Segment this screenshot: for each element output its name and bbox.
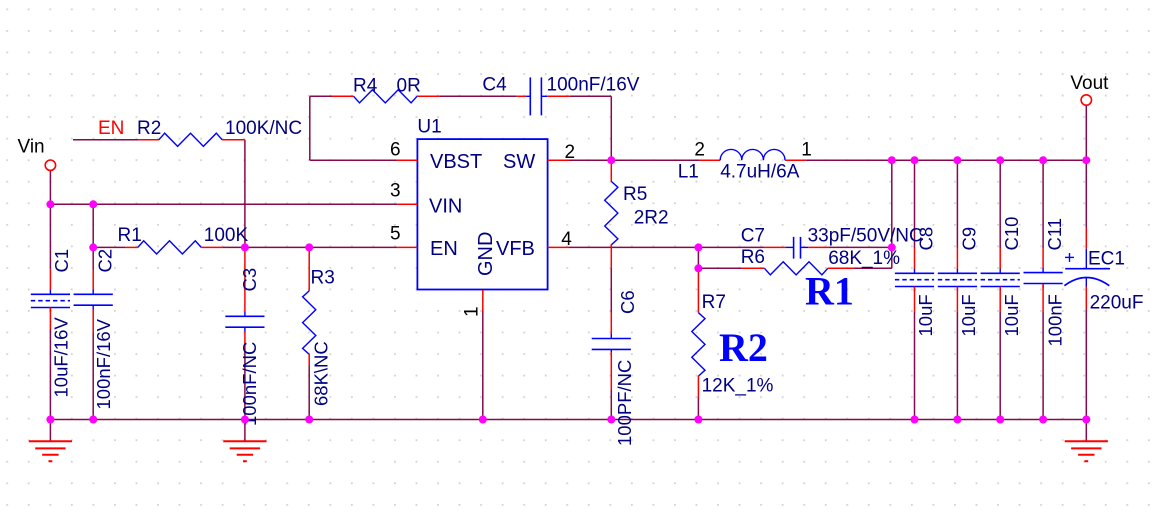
resistor R4 <box>332 76 439 103</box>
svg-text:EC1: EC1 <box>1088 249 1125 270</box>
svg-text:L1: L1 <box>678 162 699 183</box>
resistor R2 <box>137 118 302 146</box>
wire R6 left <box>698 267 741 269</box>
svg-text:6: 6 <box>390 140 401 161</box>
net label EN <box>98 118 124 139</box>
wire C10 bottom <box>999 311 1001 419</box>
junction dots feedback <box>694 243 895 272</box>
wire C8 bottom <box>914 311 916 419</box>
svg-text:12K_1%: 12K_1% <box>702 376 774 397</box>
svg-text:EN: EN <box>430 238 458 260</box>
U1 pin 5 EN <box>390 224 458 261</box>
svg-text:1: 1 <box>801 140 812 161</box>
wire C3 bottom <box>244 349 246 420</box>
resistor R1 <box>118 225 249 254</box>
resistor R5 <box>605 163 669 247</box>
U1 pin 4 VFB <box>496 229 572 260</box>
wire C6 bottom <box>610 390 612 420</box>
svg-text:GND: GND <box>475 232 497 276</box>
wire C10 top <box>999 160 1001 248</box>
capacitor C6 <box>592 247 638 446</box>
wire Vout drop <box>1085 105 1087 160</box>
capacitor C8 <box>895 227 937 337</box>
svg-text:10uF: 10uF <box>1001 294 1022 336</box>
wire C7 right <box>828 246 892 248</box>
wire EC1 bottom <box>1085 310 1087 420</box>
svg-text:VIN: VIN <box>429 196 462 218</box>
svg-text:R7: R7 <box>702 292 726 313</box>
wire VBST loop left <box>310 96 397 160</box>
svg-text:4.7uH/6A: 4.7uH/6A <box>720 162 800 183</box>
U1 pin 2 SW <box>503 142 575 173</box>
svg-text:68K_1%: 68K_1% <box>828 248 900 269</box>
ground right <box>1065 420 1108 462</box>
svg-text:0R: 0R <box>397 76 421 97</box>
svg-text:R3: R3 <box>311 268 335 289</box>
wire C11 bottom <box>1042 311 1044 419</box>
svg-text:EN: EN <box>98 118 124 139</box>
svg-text:Vout: Vout <box>1070 73 1109 94</box>
wire R7 bottom <box>697 398 699 420</box>
wire R2 to EN net vertical <box>244 140 246 248</box>
svg-text:U1: U1 <box>417 117 441 138</box>
capacitor C4 <box>482 75 639 116</box>
wire C1 bottom <box>49 329 51 420</box>
svg-text:R4: R4 <box>353 76 378 97</box>
U1 pin 3 VIN <box>390 181 462 218</box>
U1 pin 1 GND <box>461 232 497 317</box>
op-amp U1 body <box>417 117 547 290</box>
junction dots VIN row <box>46 200 97 208</box>
svg-text:220uF: 220uF <box>1090 293 1144 314</box>
svg-text:C6: C6 <box>617 290 638 314</box>
capacitor C7 <box>741 226 923 259</box>
svg-text:R2: R2 <box>719 325 768 370</box>
test point label R1 <box>805 269 854 314</box>
svg-text:5: 5 <box>390 224 401 245</box>
test point label R2 <box>719 325 768 370</box>
svg-text:R6: R6 <box>741 247 765 268</box>
svg-text:2R2: 2R2 <box>634 208 669 229</box>
wire C9 top <box>956 160 958 248</box>
svg-text:Vin: Vin <box>18 137 45 158</box>
svg-text:10uF/16V: 10uF/16V <box>51 317 72 398</box>
capacitor C10 <box>981 217 1023 337</box>
wire R6 right <box>854 267 892 269</box>
wire GND pin drop <box>482 311 484 420</box>
capacitor C1 <box>31 249 72 398</box>
svg-text:C7: C7 <box>741 226 765 247</box>
svg-text:C8: C8 <box>916 227 937 251</box>
svg-text:R2: R2 <box>137 118 161 139</box>
wire C2 branch vertical <box>92 204 94 269</box>
svg-text:100nF/NC: 100nF/NC <box>239 342 260 426</box>
wire L1 to Vout rail <box>806 159 1087 161</box>
ground left <box>29 420 72 462</box>
capacitor C3 <box>225 248 264 426</box>
svg-text:VFB: VFB <box>496 238 535 260</box>
svg-text:4: 4 <box>561 229 572 250</box>
wire EN stub <box>73 139 139 141</box>
wire R4 to C4 <box>439 95 517 97</box>
svg-text:SW: SW <box>503 151 535 173</box>
resistor R3 <box>303 248 335 406</box>
wire C11 top <box>1042 160 1044 248</box>
svg-text:C11: C11 <box>1044 218 1065 251</box>
capacitor EC1 <box>1064 227 1143 314</box>
wire EN row <box>93 246 397 248</box>
svg-text:C3: C3 <box>239 268 260 292</box>
wire Vin drop <box>49 170 51 269</box>
svg-text:100K/NC: 100K/NC <box>225 118 302 139</box>
U1 pin 6 VBST <box>390 140 482 174</box>
svg-text:C2: C2 <box>95 249 116 273</box>
inductor L1 <box>678 140 812 183</box>
wire C2 bottom <box>92 332 94 419</box>
svg-text:R1: R1 <box>805 269 854 314</box>
wire ground rail <box>50 419 1086 421</box>
svg-text:100K: 100K <box>204 225 249 246</box>
port Vout <box>1070 73 1109 105</box>
svg-text:2: 2 <box>694 140 705 161</box>
capacitor C11 <box>1024 218 1066 347</box>
svg-text:C9: C9 <box>958 227 979 251</box>
svg-text:10uF: 10uF <box>915 294 936 336</box>
capacitor C2 <box>74 249 116 410</box>
wire VFB row <box>569 246 698 248</box>
wire R3 bottom <box>308 366 310 420</box>
wire feedback vertical <box>891 160 893 268</box>
svg-text:100nF/16V: 100nF/16V <box>547 75 640 96</box>
wire VFB to C7 <box>698 246 764 248</box>
svg-text:C10: C10 <box>1001 217 1022 251</box>
wire VIN row <box>50 203 397 205</box>
port Vin <box>18 137 56 171</box>
resistor R7 <box>692 269 774 398</box>
wire EC1 top <box>1085 160 1087 227</box>
ground middle <box>223 420 266 462</box>
wire C8 top <box>914 160 916 248</box>
junction dots output rail <box>607 156 1090 164</box>
wire C4 to SW node <box>570 96 612 160</box>
svg-text:1: 1 <box>461 306 482 317</box>
svg-text:R1: R1 <box>118 225 142 246</box>
resistor R6 <box>741 247 900 275</box>
capacitor C9 <box>938 227 980 337</box>
svg-text:68K\NC: 68K\NC <box>311 341 332 406</box>
wire C9 bottom <box>956 311 958 419</box>
junction dots EN row <box>89 243 313 251</box>
junction dots ground rail <box>46 416 1090 424</box>
svg-text:C4: C4 <box>482 75 507 96</box>
wire C6 mid <box>610 268 612 313</box>
svg-text:100PF/NC: 100PF/NC <box>614 360 635 446</box>
wire R7 branch <box>697 247 699 269</box>
svg-text:10uF: 10uF <box>958 294 979 336</box>
svg-text:33pF/50V/NC: 33pF/50V/NC <box>808 226 923 247</box>
svg-text:100nF: 100nF <box>1045 294 1066 346</box>
svg-text:R5: R5 <box>623 184 647 205</box>
svg-text:3: 3 <box>390 181 401 202</box>
svg-text:VBST: VBST <box>430 151 482 173</box>
svg-text:100nF/16V: 100nF/16V <box>93 318 114 409</box>
wire SW row to L1 <box>569 159 699 161</box>
svg-text:C1: C1 <box>51 249 72 273</box>
svg-text:2: 2 <box>565 142 576 163</box>
